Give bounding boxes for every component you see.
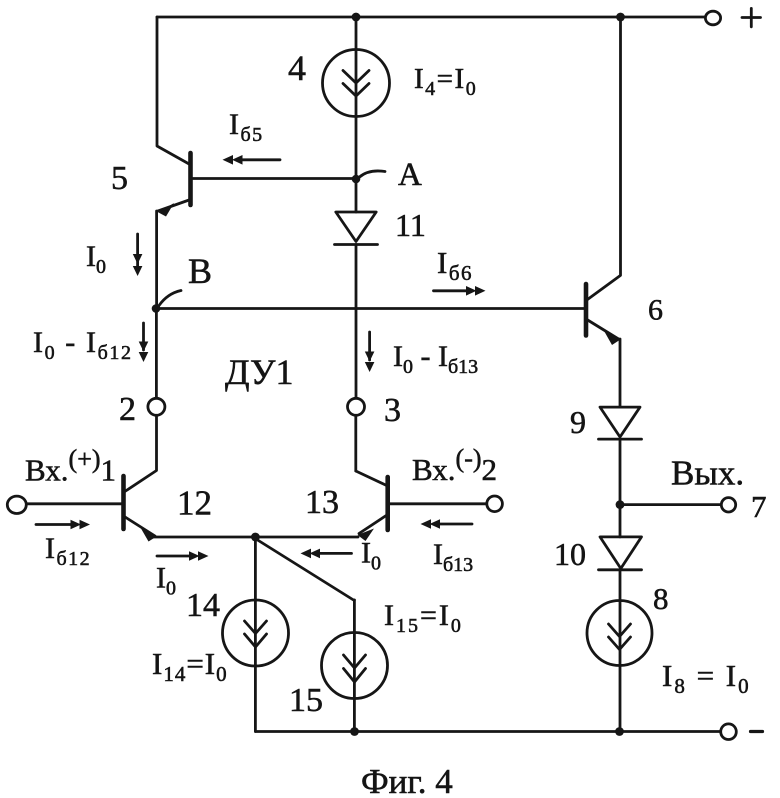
svg-text:15: 15 bbox=[289, 682, 323, 719]
wire: circle 3 to transistor 13 collector bbox=[354, 415, 357, 471]
svg-text:2: 2 bbox=[119, 391, 136, 428]
diode 10 triangle bbox=[600, 537, 642, 569]
arrow I0 down (below transistor 5) bbox=[136, 234, 139, 268]
svg-text:11: 11 bbox=[395, 207, 426, 243]
node (junction dot) top rail at transistor 6 branch bbox=[616, 13, 625, 22]
node (junction dot) bottom rail at source 15 bbox=[350, 727, 359, 736]
input terminal circle 1 bbox=[7, 496, 26, 513]
transistor 6 emitter wire bbox=[586, 319, 619, 339]
wire: vertical through current source 15 to bottom rail bbox=[353, 600, 356, 732]
svg-text:Вых.: Вых. bbox=[671, 454, 744, 493]
wire: output node to output terminal bbox=[620, 503, 722, 506]
svg-text:Iб5: Iб5 bbox=[229, 108, 264, 146]
wire bottom rail - bbox=[255, 730, 720, 733]
wire: vertical through current source 4 down to node A and diode 11 bbox=[355, 17, 358, 212]
svg-text:4: 4 bbox=[288, 48, 306, 88]
wire: transistor 5 emitter down to node B bbox=[155, 211, 158, 309]
svg-text:13: 13 bbox=[305, 484, 339, 521]
svg-text:14: 14 bbox=[186, 587, 220, 624]
transistor 5 base wire to node A bbox=[191, 177, 357, 180]
wire: circle 2 to transistor 12 collector bbox=[125, 415, 157, 491]
transistor 5 emitter arrowhead bbox=[159, 203, 175, 217]
transistor 5 collector wire from rail bbox=[157, 17, 190, 165]
arrow I0 (right, double head, below bus left) bbox=[157, 555, 190, 558]
plus sign bbox=[742, 16, 761, 19]
diode 10 bar bbox=[599, 568, 642, 571]
svg-text:Вх.(+)1: Вх.(+)1 bbox=[25, 445, 116, 488]
svg-text:3: 3 bbox=[384, 392, 401, 429]
terminal + (top right) bbox=[705, 11, 720, 25]
transistor 12 base wire bbox=[27, 502, 124, 505]
wire: node B down to terminal circle 2 bbox=[155, 309, 158, 399]
svg-text:I15=I0: I15=I0 bbox=[384, 599, 463, 637]
arrow Ib5 (left, double head) bbox=[240, 158, 280, 161]
minus sign bbox=[751, 730, 763, 733]
transistor 5 emitter wire bbox=[158, 200, 191, 212]
node B leader curve bbox=[159, 291, 181, 306]
wire: diode 11 to terminal circle 3 bbox=[355, 245, 358, 399]
arrow I0-Ib13 down bbox=[368, 332, 371, 360]
transistor 13 emitter wire bbox=[359, 515, 388, 534]
svg-text:I4=I0: I4=I0 bbox=[414, 63, 477, 100]
diode 11 bar bbox=[335, 243, 378, 246]
svg-text:B: B bbox=[188, 251, 212, 291]
output terminal circle 7 bbox=[721, 498, 735, 512]
node (junction dot) emitter bus bbox=[251, 533, 260, 542]
arrow Ib6 (right, double head) bbox=[434, 289, 468, 292]
node A leader curve bbox=[360, 171, 386, 177]
wire: emitter bus node down through current source 14 to bottom rail bbox=[254, 537, 257, 732]
svg-text:Iб13: Iб13 bbox=[433, 538, 473, 576]
diode 11 triangle bbox=[336, 212, 376, 242]
transistor 6 collector wire from rail bbox=[587, 17, 620, 300]
svg-text:I0 - Iб12: I0 - Iб12 bbox=[33, 326, 133, 364]
terminal circle 3 bbox=[348, 398, 365, 415]
terminal - (bottom right) bbox=[721, 724, 737, 740]
svg-text:8: 8 bbox=[653, 581, 669, 616]
current source 4 circle bbox=[323, 50, 390, 117]
svg-text:Iб12: Iб12 bbox=[45, 532, 91, 570]
wire: emitter bus between transistors 12 and 13 bbox=[153, 536, 358, 539]
svg-text:Вх.(-)2: Вх.(-)2 bbox=[412, 444, 497, 487]
current source 14 circle bbox=[223, 600, 289, 666]
current source 8 chevron arrows bbox=[609, 624, 631, 637]
current source 15 chevron arrows bbox=[344, 655, 366, 668]
current source 4 chevron arrows bbox=[343, 71, 369, 84]
svg-text:ДУ1: ДУ1 bbox=[225, 352, 293, 392]
wire top rail + bbox=[157, 16, 706, 19]
svg-text:I8 = I0: I8 = I0 bbox=[662, 658, 751, 698]
arrow I0-Ib12 down bbox=[142, 323, 145, 350]
node (junction dot) output bbox=[616, 500, 625, 509]
svg-text:10: 10 bbox=[554, 536, 586, 572]
svg-text:7: 7 bbox=[751, 489, 767, 524]
transistor 12 emitter wire bbox=[124, 516, 156, 536]
diode 9 triangle bbox=[600, 407, 640, 437]
transistor 13 bar bbox=[385, 477, 390, 530]
node (junction dot) bottom rail at source 8 bbox=[615, 727, 624, 736]
transistor 6 emitter arrowhead bbox=[605, 332, 621, 345]
svg-text:9: 9 bbox=[570, 404, 586, 440]
svg-text:I0: I0 bbox=[86, 240, 106, 278]
current source 14 chevron arrows bbox=[245, 621, 267, 634]
transistor 6 bar bbox=[584, 284, 589, 336]
wire: diode 9 to output node bbox=[619, 439, 622, 537]
svg-text:12: 12 bbox=[177, 484, 212, 523]
wire: diagonal from emitter bus node to current source 15 bbox=[256, 539, 354, 600]
node B (junction dot) bbox=[152, 304, 161, 313]
svg-text:I14=I0: I14=I0 bbox=[152, 646, 228, 686]
svg-text:I0: I0 bbox=[361, 537, 381, 575]
transistor 13 emitter arrowhead bbox=[358, 529, 375, 542]
svg-text:I0: I0 bbox=[156, 562, 176, 600]
diode 9 bar bbox=[599, 438, 642, 441]
current source 8 circle bbox=[587, 601, 652, 666]
arrow I0 (left, double head, below bus right) bbox=[318, 552, 352, 555]
svg-text:Фиг. 4: Фиг. 4 bbox=[361, 762, 453, 798]
wire: diode 10 through current source 8 to bottom rail bbox=[619, 570, 622, 732]
svg-text:I0 - Iб13: I0 - Iб13 bbox=[393, 340, 478, 378]
svg-text:A: A bbox=[398, 157, 422, 193]
current source 15 circle bbox=[322, 633, 388, 699]
input terminal circle 2 (Vx minus) bbox=[487, 496, 503, 512]
svg-text:6: 6 bbox=[648, 294, 663, 327]
wire: transistor 6 emitter to diode 9 bbox=[619, 339, 622, 407]
wire: node B horizontal to transistor 6 base bbox=[156, 307, 586, 310]
svg-text:5: 5 bbox=[111, 160, 128, 197]
terminal circle 2 bbox=[148, 398, 165, 415]
node A (junction dot) bbox=[352, 175, 361, 184]
transistor 5 bar bbox=[188, 153, 193, 205]
transistor 12 bar bbox=[121, 476, 126, 529]
transistor 13 base wire bbox=[388, 502, 487, 505]
transistor 12 emitter arrowhead bbox=[141, 529, 157, 542]
arrow Ib13 (left, double head) bbox=[438, 523, 472, 526]
arrow Ib12 (right, double head) bbox=[36, 523, 71, 526]
svg-text:Iб6: Iб6 bbox=[437, 245, 473, 285]
transistor 13 collector wire from circle 3 bbox=[356, 471, 388, 486]
node (junction dot) top rail at current source 4 bbox=[352, 13, 361, 22]
